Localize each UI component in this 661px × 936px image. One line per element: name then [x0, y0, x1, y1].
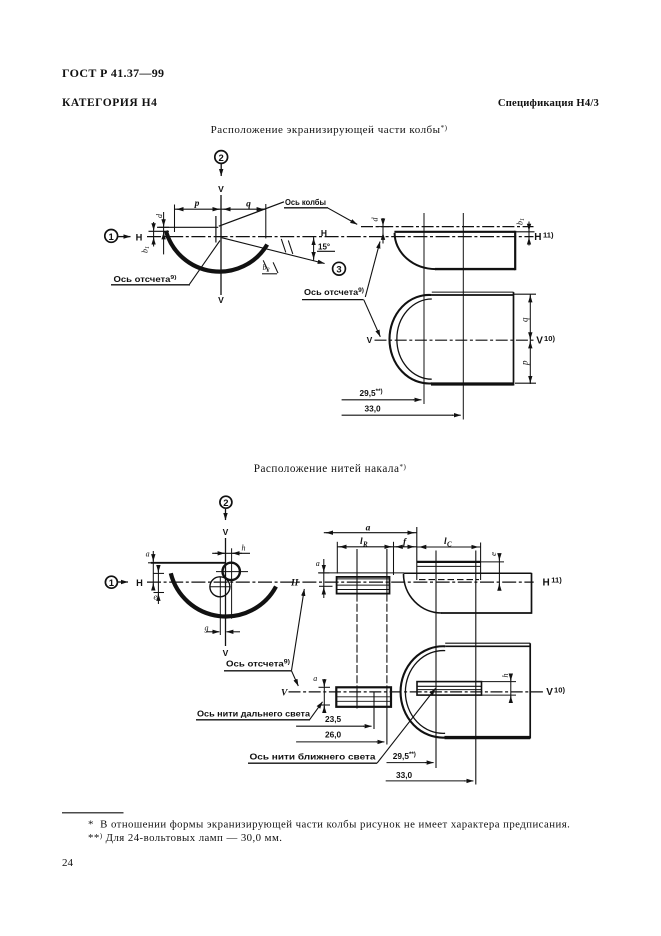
svg-text:Расположение экранизирующей ча: Расположение экранизирующей части колбы*…	[211, 124, 448, 136]
svg-text:Ось нити дальнего света: Ось нити дальнего света	[197, 710, 310, 719]
dim boundary verticals	[336, 542, 338, 574]
svg-text:V: V	[223, 527, 229, 537]
shield H-view right edge	[514, 231, 516, 270]
b1 extension tick	[515, 231, 534, 233]
dimension line p q (top)	[175, 208, 266, 210]
svg-text:b1: b1	[141, 246, 152, 253]
dimension 33.0	[342, 414, 453, 416]
svg-text:g: g	[205, 624, 209, 633]
dome outer arc	[389, 295, 431, 384]
b2 tick marks on 15 deg line	[281, 239, 286, 253]
dimension a (V view left)	[323, 679, 325, 711]
svg-text:h: h	[501, 674, 510, 678]
svg-text:26,0: 26,0	[325, 729, 342, 739]
arrow below circle 2	[220, 164, 222, 176]
short vertical for 23.5	[373, 692, 375, 729]
svg-text:e: e	[488, 552, 498, 556]
svg-text:b1: b1	[516, 218, 527, 225]
H reference axis (dash-dot)	[147, 236, 534, 238]
pointer from label to centre	[190, 241, 221, 285]
svg-text:1: 1	[109, 232, 115, 243]
direction indicator circle 2	[220, 496, 232, 508]
pointer up to H axis	[292, 589, 305, 671]
pointer to low-beam filament	[377, 688, 436, 763]
dimension a (front view)	[152, 551, 154, 590]
svg-text:a: a	[313, 674, 317, 683]
direction indicator circle 1 (left)	[105, 230, 118, 243]
q p dimension vertical	[529, 294, 531, 384]
svg-text:3: 3	[336, 265, 341, 276]
arrow below circle 2	[225, 509, 227, 520]
svg-text:Ось нити ближнего света: Ось нити ближнего света	[250, 752, 376, 762]
low-beam filament centre vertical	[231, 548, 233, 618]
reference vertical 33.0	[462, 213, 464, 420]
shield H-view outline: left curve	[395, 233, 437, 269]
svg-text:b2: b2	[263, 263, 270, 274]
direction indicator circle 2 (top)	[215, 151, 228, 164]
svg-text:10): 10)	[544, 334, 555, 343]
dome top main line	[445, 645, 530, 647]
overall dimension a (top)	[324, 532, 417, 534]
svg-text:29,5**): 29,5**)	[393, 751, 416, 761]
high-beam filament circle (thin)	[210, 577, 230, 597]
svg-text:V: V	[218, 295, 224, 305]
q p extension ticks	[514, 293, 537, 295]
svg-text:d: d	[155, 213, 164, 218]
svg-text:29,5**): 29,5**)	[360, 388, 383, 398]
svg-text:q: q	[520, 317, 530, 322]
svg-text:24: 24	[62, 857, 74, 869]
dome bottom thick line	[445, 736, 531, 739]
dimension e (H view right)	[498, 554, 500, 589]
svg-text:23,5: 23,5	[325, 714, 342, 724]
svg-text:p: p	[194, 199, 200, 209]
dimension g (front view)	[206, 631, 218, 633]
svg-text:H: H	[136, 232, 143, 242]
svg-text:V: V	[367, 335, 373, 345]
pointer down to V axis	[292, 671, 299, 686]
V axis (dash-dot)	[289, 691, 546, 693]
shield arc (left view, thick)	[166, 231, 267, 272]
svg-text:ГОСТ Р 41.37—99: ГОСТ Р 41.37—99	[62, 66, 164, 80]
svg-text:Ось отсчета9): Ось отсчета9)	[304, 287, 364, 297]
dome top main line	[432, 294, 514, 296]
dimension b1 (left view) vertical line	[153, 222, 155, 247]
15 degree line to indicator 3	[222, 238, 325, 264]
svg-text:a: a	[146, 550, 150, 559]
V axis front view	[225, 538, 227, 646]
svg-text:h: h	[242, 544, 246, 553]
bulb outline H view: bottom edge	[441, 612, 532, 614]
svg-text:V: V	[281, 689, 288, 699]
pointer up to H axis	[365, 242, 380, 298]
svg-text:Ось отсчета9): Ось отсчета9)	[226, 659, 290, 669]
filament reference verticals (solid above, dashed below)	[356, 549, 358, 594]
dimension 33.0	[386, 780, 465, 782]
bulb axis thin line	[318, 572, 404, 574]
dimension a (H view left)	[323, 559, 325, 598]
reference vertical 29.5	[423, 213, 425, 404]
svg-text:33,0: 33,0	[365, 404, 382, 414]
svg-text:2: 2	[219, 153, 224, 164]
shield top edge (thick)	[394, 231, 515, 233]
direction indicator circle 3	[333, 262, 346, 275]
dimension e (front view)	[157, 566, 159, 604]
svg-text:H: H	[534, 232, 541, 243]
svg-text:C: C	[447, 540, 452, 548]
low-beam filament circle (thick)	[223, 563, 240, 580]
bulb dome V view: top thin line	[445, 642, 530, 644]
pointer down to V axis	[364, 300, 381, 337]
dome bottom thick line	[431, 382, 514, 385]
top reference line (front view)	[151, 562, 226, 564]
svg-text:* В отношении формы экранизир: * В отношении формы экранизирующей части…	[88, 819, 570, 831]
svg-text:2: 2	[223, 498, 228, 509]
bulb axis (dash-dot, right view)	[361, 226, 534, 228]
svg-text:H: H	[321, 228, 327, 238]
low-beam filament dashed bottom	[419, 579, 479, 581]
dimension b1 (right view)	[528, 222, 530, 246]
bulb outline H view: top edge	[404, 572, 532, 574]
high-beam filament rectangle (H view)	[337, 577, 390, 594]
svg-text:V: V	[218, 184, 224, 194]
shield H-view bottom edge	[435, 268, 515, 270]
dimension h (front view)	[212, 552, 250, 554]
15 deg angular dimension vertical	[313, 237, 315, 261]
dome outer arc	[401, 646, 446, 737]
d tick marks	[159, 226, 170, 228]
svg-text:Ось отсчета9): Ось отсчета9)	[114, 275, 177, 284]
svg-text:e: e	[154, 593, 158, 602]
bulb outline H view: right edge	[531, 573, 533, 614]
svg-text:a: a	[316, 559, 320, 568]
svg-text:p: p	[520, 360, 530, 366]
high-beam filament centre vertical	[219, 577, 221, 635]
V axis dome view (dash-dot)	[375, 339, 537, 341]
svg-text:Ось колбы: Ось колбы	[285, 197, 326, 207]
dimension f	[394, 546, 417, 548]
svg-text:33,0: 33,0	[396, 770, 413, 780]
pointer from label to right-view bulb axis (arrow)	[328, 208, 358, 225]
svg-text:H: H	[136, 578, 143, 588]
filament marker line at centre	[215, 216, 217, 243]
svg-text:H: H	[543, 577, 550, 588]
svg-text:КАТЕГОРИЯ Н4: КАТЕГОРИЯ Н4	[62, 97, 157, 109]
arrow right of circle 1	[118, 236, 130, 238]
dimension 23.5	[296, 725, 364, 727]
svg-text:15°: 15°	[318, 243, 330, 252]
direction indicator circle 1	[105, 576, 117, 588]
dome inner arc	[397, 299, 432, 379]
svg-text:V: V	[546, 687, 553, 698]
high-beam filament rectangle (V view)	[336, 687, 391, 707]
svg-text:10): 10)	[554, 686, 565, 695]
dimension 26.0	[296, 741, 377, 743]
dimension h (V view)	[510, 674, 512, 703]
svg-text:Спецификация Н4/3: Спецификация Н4/3	[498, 98, 599, 109]
svg-text:1: 1	[109, 578, 115, 589]
dome (shield V-view): outer top thin line	[432, 291, 514, 293]
long reference verticals 29.5 / 33.0	[435, 551, 437, 769]
H axis (shared, dash-dot)	[147, 581, 534, 583]
svg-text:q: q	[246, 200, 251, 210]
shield arc (front view, thick)	[171, 573, 276, 616]
low-beam filament (H view): thick top line	[417, 561, 481, 563]
p q boundary verticals	[174, 205, 176, 233]
svg-text:H: H	[290, 579, 299, 589]
line through high-beam filament	[210, 586, 231, 588]
svg-text:V: V	[536, 335, 543, 346]
svg-text:**) Для 24-вольтовых ламп — 30: **) Для 24-вольтовых ламп — 30,0 мм.	[88, 832, 282, 844]
pointer to filament	[310, 702, 323, 720]
low-beam filament rectangle (V view)	[417, 682, 482, 696]
arrow right of circle 1	[118, 581, 128, 583]
svg-text:Расположение нитей накала*): Расположение нитей накала*)	[254, 463, 407, 475]
bulb axis line (left view)	[157, 226, 218, 228]
line through low-beam filament	[216, 571, 248, 573]
bulb outline H view: left curve	[404, 574, 442, 613]
svg-text:R: R	[362, 540, 368, 548]
svg-text:d: d	[371, 217, 380, 222]
dimension lR	[337, 546, 393, 548]
dimension d (right view)	[382, 218, 384, 244]
dimension d (left view) vertical line	[163, 212, 165, 254]
svg-text:V: V	[223, 648, 229, 658]
V axis (vertical centerline)	[220, 195, 222, 295]
footnote separator rule	[62, 812, 124, 814]
dimension lC	[417, 546, 481, 548]
pointer from label to left-view bulb axis	[219, 202, 284, 226]
svg-text:a: a	[366, 523, 371, 533]
dome inner arc	[405, 651, 445, 734]
svg-text:11): 11)	[551, 576, 562, 585]
dome right edge	[513, 292, 515, 385]
svg-text:f: f	[403, 537, 407, 547]
dimension 29.5	[387, 762, 427, 764]
svg-text:11): 11)	[543, 231, 554, 240]
dome right edge	[529, 643, 531, 738]
dimension 29.5	[342, 399, 414, 401]
